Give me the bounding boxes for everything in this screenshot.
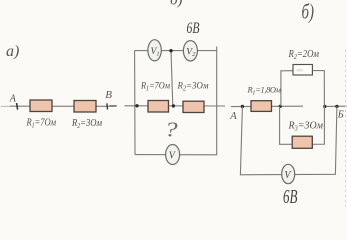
- wire bottom rail: [135, 154, 217, 156]
- voltmeter V1: [148, 40, 161, 61]
- page edge faint dotted line: [345, 50, 347, 210]
- voltmeter V (v): [282, 164, 295, 183]
- svg-text:R2=3Ом: R2=3Ом: [71, 118, 102, 130]
- resistor R1 (b): [148, 101, 169, 113]
- wire main line right: [325, 105, 347, 107]
- svg-text:б): б): [170, 0, 183, 9]
- resistor R2 (a): [74, 101, 96, 113]
- svg-text:В: В: [105, 89, 112, 101]
- resistor R3 (v): [292, 136, 312, 148]
- svg-text:А: А: [9, 94, 17, 105]
- wire left vertical: [134, 51, 136, 155]
- junction dot node3 (voltmeter tap right): [335, 105, 338, 108]
- svg-text:R2=2Ом: R2=2Ом: [288, 49, 320, 61]
- junction dot middle rail left: [135, 104, 138, 107]
- wire top branch: [281, 71, 325, 107]
- terminal A tick: [17, 103, 18, 110]
- svg-text:R2=3Ом: R2=3Ом: [177, 82, 209, 93]
- wire main line left: [231, 105, 303, 107]
- svg-text:6В: 6В: [187, 20, 200, 37]
- wire voltmeter loop: [240, 106, 337, 174]
- svg-text:R1=7Ом: R1=7Ом: [26, 118, 57, 130]
- wire top rail: [135, 50, 217, 52]
- svg-text:R1=7Ом: R1=7Ом: [140, 82, 170, 93]
- svg-text:а): а): [6, 43, 19, 60]
- svg-text:Б: Б: [337, 109, 344, 120]
- svg-text:R3=3Ом: R3=3Ом: [288, 121, 324, 133]
- wire A-B: [1, 105, 10, 107]
- wire right vertical: [216, 47, 218, 156]
- resistor R2 (v) white box: [293, 65, 312, 76]
- svg-text:?: ?: [165, 119, 178, 142]
- junction dot left (voltmeter tap): [241, 105, 244, 108]
- voltmeter V2: [183, 41, 197, 61]
- svg-text:б): б): [302, 0, 315, 24]
- junction dot top rail: [169, 49, 172, 52]
- resistor R1 (a): [30, 100, 52, 112]
- wire middle rail lead-in dash: [110, 105, 118, 107]
- wire bottom branch: [280, 106, 325, 144]
- junction dot node1: [279, 105, 282, 108]
- wire middle vertical (between voltmeter junction and resistor junction): [171, 51, 173, 106]
- resistor R1 (v): [251, 101, 272, 112]
- resistor R2 (b): [183, 101, 204, 112]
- svg-text:6В: 6В: [283, 186, 298, 208]
- svg-text:А: А: [229, 111, 237, 122]
- wire middle rail: [125, 105, 226, 107]
- junction dot node2: [323, 105, 326, 108]
- terminal B tick: [106, 103, 109, 109]
- junction dot middle rail center: [172, 104, 175, 107]
- voltmeter V bottom (b): [166, 145, 180, 165]
